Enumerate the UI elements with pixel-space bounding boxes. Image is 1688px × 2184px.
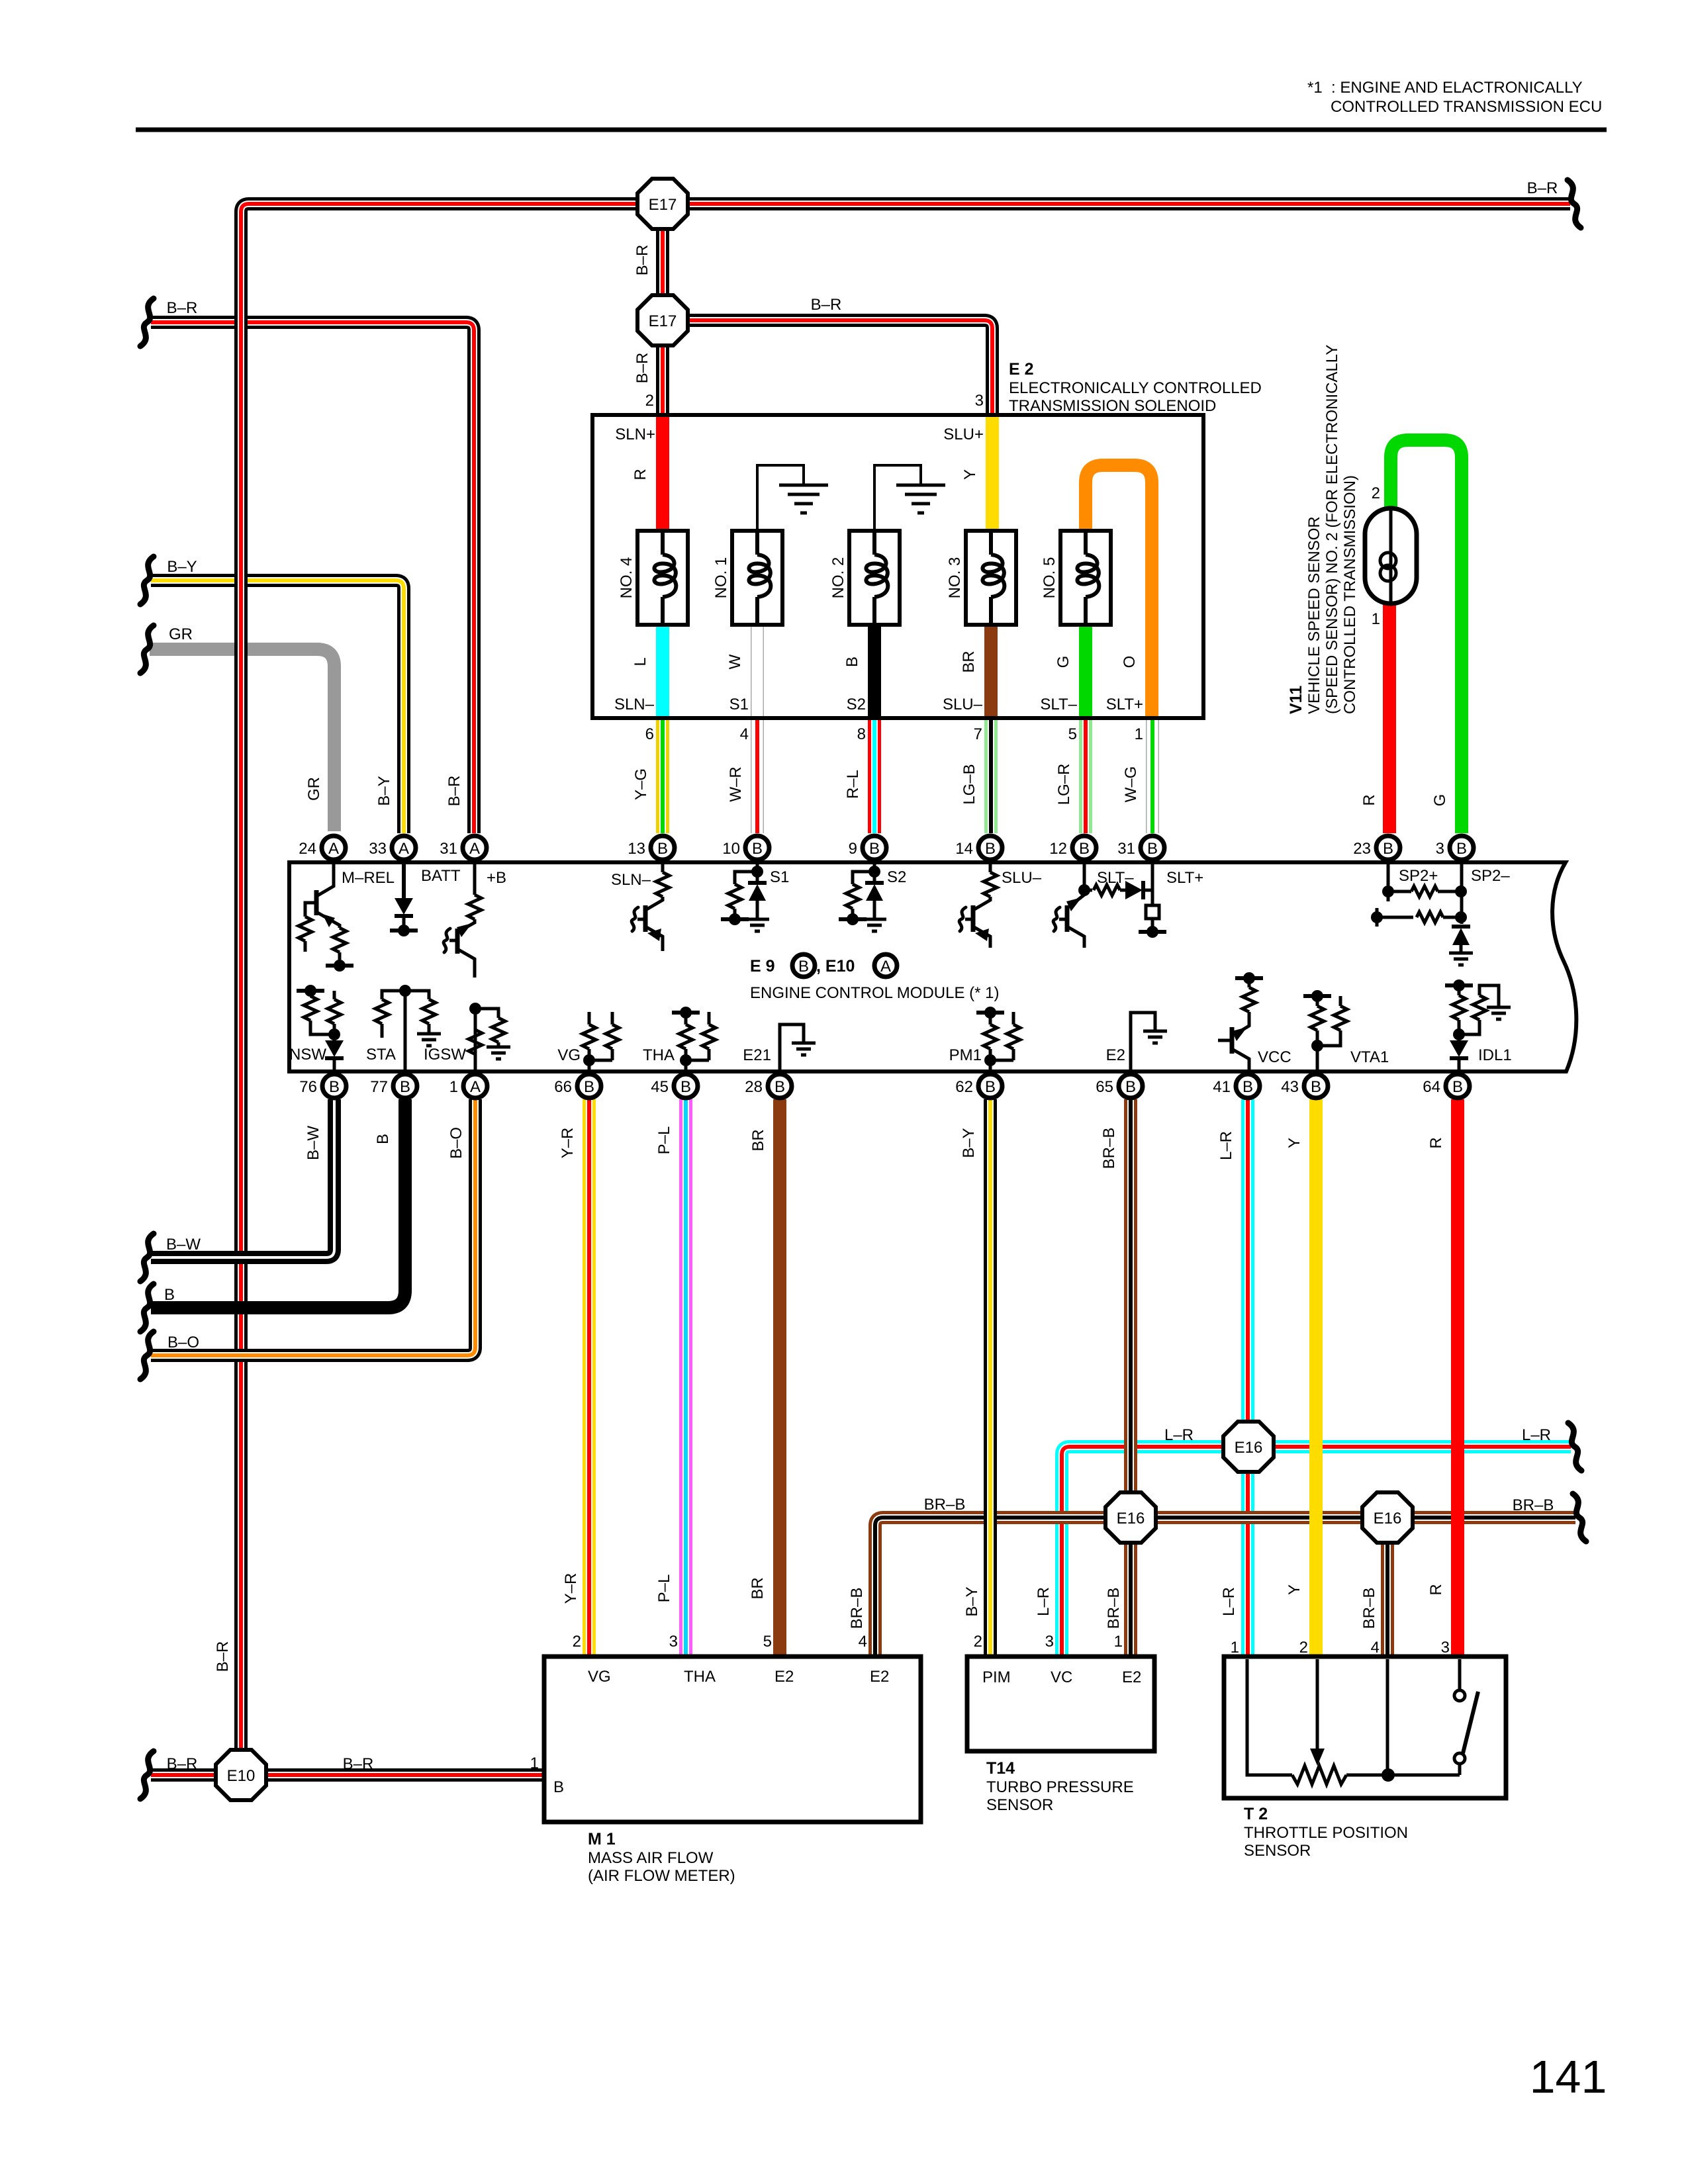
wire P-L wire 45B to M1 THA [679,1099,692,1655]
T2 potentiometer [1247,1659,1292,1775]
svg-text:S1: S1 [770,868,789,886]
svg-text:VG: VG [588,1668,611,1686]
svg-text:8: 8 [857,725,866,743]
break symbol B left [140,1284,154,1332]
ECM bottom pin 62 B [978,1074,1002,1098]
svg-text:W–G: W–G [1122,766,1140,803]
svg-text:10: 10 [722,840,740,858]
svg-text:B–R: B–R [633,245,651,276]
svg-text:S1: S1 [729,696,749,713]
svg-text:THA: THA [643,1046,675,1064]
break symbol BR-B right [1573,1494,1586,1541]
wire B-R from E17 to solenoid pin3 [663,320,992,417]
svg-text:B–Y: B–Y [375,776,393,805]
solenoid box E2 border [592,415,1203,718]
svg-text:B: B [869,840,880,858]
wire W-R wire pin4 to 10B [751,719,764,833]
svg-text:B: B [1243,1078,1253,1096]
svg-text:L: L [632,657,649,666]
svg-text:SLU–: SLU– [943,696,983,713]
svg-text:B: B [1311,1078,1321,1096]
svg-text:G: G [1055,656,1072,668]
svg-text:SP2–: SP2– [1471,867,1510,885]
svg-text:E2: E2 [870,1668,889,1686]
clamp diodes S2 [873,864,876,883]
ECM top pin 23 B [1376,836,1400,860]
svg-text:Y: Y [1286,1138,1303,1148]
svg-text:E17: E17 [649,312,677,330]
svg-text:B: B [752,840,763,858]
svg-text:IGSW: IGSW [424,1046,466,1064]
svg-text:BR–B: BR–B [1100,1128,1118,1169]
header rule [136,128,1607,132]
svg-text:B: B [400,1078,410,1096]
svg-text:33: 33 [369,840,387,858]
svg-text:E2: E2 [774,1668,794,1686]
svg-text:L–R: L–R [1035,1587,1053,1616]
connector E17 octagon [637,295,688,345]
wire BR wire 28B to M1 E2 [773,1099,786,1655]
svg-text:W: W [726,654,744,669]
svg-text:Y: Y [961,469,979,480]
break symbol B-O left [140,1332,154,1379]
ECM bottom pin 43 B [1304,1074,1328,1098]
wire Y-R wire 66B to M1 VG [583,1099,596,1655]
ECM top pin 9 B [863,836,886,860]
svg-text:31: 31 [1117,840,1135,858]
svg-text:L–R: L–R [1220,1587,1238,1616]
wire R wire V11 pin1 to 23B [1383,602,1396,833]
ECM box fill [289,862,1576,1071]
svg-text:9: 9 [849,840,857,858]
svg-text:A: A [469,840,480,858]
ECM bottom pin 65 B [1119,1074,1143,1098]
svg-text:B: B [657,840,668,858]
solenoid box fill [592,415,1203,718]
svg-text:E16: E16 [1117,1510,1145,1527]
wire O wire SLT+ inside box [1086,465,1152,717]
ECM bottom pin 66 B [577,1074,601,1098]
svg-text:B–R: B–R [214,1641,232,1672]
svg-text:BR: BR [749,1129,767,1151]
wire B-O from pin1A [151,1099,475,1355]
svg-text:TURBO PRESSURE: TURBO PRESSURE [986,1778,1134,1796]
svg-text:BR–B: BR–B [848,1588,866,1629]
break symbol B-W left [140,1234,154,1281]
svg-text:E16: E16 [1374,1510,1402,1527]
svg-text:(SPEED SENSOR) NO. 2 (FOR ELEC: (SPEED SENSOR) NO. 2 (FOR ELECTRONICALLY [1323,345,1341,714]
svg-text:2: 2 [645,392,654,410]
svg-text:SLT–: SLT– [1097,869,1134,887]
E21 ground [780,1024,804,1069]
svg-text:B: B [1383,840,1393,858]
wire L wire SLN- inside box [656,622,669,717]
wire G wire SLT- inside box [1079,622,1092,717]
svg-text:14: 14 [955,840,973,858]
break symbol B-Y left [140,557,154,604]
svg-text:4: 4 [740,725,749,743]
wire BR-B wire 65B to T14 E2 [1124,1099,1137,1655]
wire W-G wire pin1 to 31B [1146,719,1159,833]
svg-text:STA: STA [366,1046,396,1064]
wire L-R wire 41B to T2 pin1 [1241,1099,1254,1655]
transistor M-REL [318,864,334,895]
break symbol GR left [140,625,154,673]
wire GR to pin24A [150,649,334,831]
svg-text:BR–B: BR–B [1105,1588,1123,1629]
svg-text:Y–R: Y–R [562,1573,580,1604]
break symbol B-R right top [1568,180,1581,228]
svg-text:VEHICLE SPEED SENSOR: VEHICLE SPEED SENSOR [1305,516,1323,714]
svg-text:Y–R: Y–R [559,1128,577,1159]
PM1 resistors [989,1060,992,1069]
svg-text:B: B [985,1078,996,1096]
transistor +B [473,864,477,895]
svg-text:W–R: W–R [727,766,745,801]
svg-text:BR–B: BR–B [1360,1588,1378,1629]
svg-text:3: 3 [975,392,984,410]
ECM box border [289,862,1576,1071]
svg-text:VTA1: VTA1 [1350,1048,1389,1066]
svg-text:1: 1 [1114,1633,1123,1651]
svg-text:B: B [1125,1078,1136,1096]
svg-text:B–Y: B–Y [960,1128,978,1158]
clamp diodes S1 [756,864,759,883]
svg-text:2: 2 [1372,484,1380,502]
ground for coil NO.2 [874,465,921,531]
svg-text:SENSOR: SENSOR [986,1796,1053,1814]
wire LG-B wire pin7 to 14B [984,719,998,833]
svg-text:B: B [584,1078,594,1096]
wire B wire S2 inside box [868,622,881,717]
svg-text:1: 1 [449,1078,458,1096]
svg-text:SENSOR: SENSOR [1244,1842,1311,1860]
svg-text:5: 5 [763,1633,772,1651]
wire Y wire SLU+ inside box [986,417,999,533]
svg-text:LG–B: LG–B [961,764,978,804]
svg-text:PM1: PM1 [949,1046,982,1064]
svg-text:45: 45 [651,1078,669,1096]
svg-text:12: 12 [1049,840,1067,858]
svg-text:R–L: R–L [844,770,862,799]
T14 box [967,1657,1154,1751]
svg-text:65: 65 [1096,1078,1113,1096]
svg-text:T14: T14 [986,1759,1015,1778]
svg-text:ELECTRONICALLY CONTROLLED: ELECTRONICALLY CONTROLLED [1009,379,1262,397]
svg-text:R: R [1360,794,1378,805]
wire Y-G wire pin6 to 13B [656,719,669,833]
svg-text:B–R: B–R [167,299,198,317]
ECM top pin 31 A [463,836,487,860]
svg-text:SLN+: SLN+ [615,426,655,443]
svg-text:R: R [1427,1137,1445,1148]
svg-text:NO. 1: NO. 1 [712,557,730,599]
connector E16 octagon [1105,1492,1156,1543]
svg-text:VG: VG [557,1046,581,1064]
svg-text:2: 2 [573,1633,581,1651]
svg-text:BATT: BATT [421,867,461,885]
svg-text:B: B [774,1078,785,1096]
SLT+ square and node [1151,864,1154,905]
ECM top pin 12 B [1072,836,1096,860]
svg-text:B: B [1452,1078,1463,1096]
solenoid coil NO. 2 [849,531,900,625]
svg-text:IDL1: IDL1 [1478,1046,1512,1064]
svg-text:B: B [374,1134,392,1144]
svg-text:64: 64 [1423,1078,1440,1096]
solenoid coil NO. 5 [1060,531,1111,625]
svg-text:P–L: P–L [655,1126,673,1155]
svg-text:NO. 4: NO. 4 [618,557,635,599]
diode BATT [402,864,406,898]
svg-text:O: O [1121,656,1139,668]
svg-text:B–Y: B–Y [167,558,197,576]
transistor SLN- [661,864,665,872]
svg-text:SP2+: SP2+ [1399,867,1438,885]
svg-text:L–R: L–R [1217,1131,1235,1160]
svg-text:E 9: E 9 [750,957,775,976]
svg-text:76: 76 [299,1078,317,1096]
svg-text:PIM: PIM [982,1668,1011,1686]
svg-text:28: 28 [745,1078,763,1096]
wire Y wire 43B to T2 pin2 [1309,1099,1323,1655]
wire B-W from pin76 [151,1099,334,1257]
wire R-L wire pin8 to 9B [868,719,881,833]
svg-text:141: 141 [1530,2051,1607,2103]
T2 junction dot pin4 [1386,1659,1389,1775]
svg-text:SLT+: SLT+ [1166,869,1203,887]
svg-text:R: R [632,469,649,480]
wire R wire 64B to T2 pin3 [1451,1099,1464,1655]
svg-text:BR: BR [749,1577,767,1599]
svg-text:E21: E21 [743,1046,771,1064]
svg-text:+B: +B [487,869,506,887]
svg-text:23: 23 [1353,840,1371,858]
svg-text:3: 3 [669,1633,678,1651]
svg-text:2: 2 [974,1633,982,1651]
wire B from pin77 [151,1099,405,1308]
svg-text:41: 41 [1213,1078,1231,1096]
ground for coil NO.1 [757,465,804,531]
svg-text:A: A [328,840,339,858]
svg-text:2: 2 [1299,1639,1308,1657]
svg-text:Y: Y [1286,1584,1303,1595]
svg-text:B: B [680,1078,691,1096]
svg-text:VCC: VCC [1258,1048,1291,1066]
T2 box [1224,1657,1506,1798]
svg-text:(AIR FLOW METER): (AIR FLOW METER) [588,1867,735,1885]
svg-text:T 2: T 2 [1244,1805,1268,1823]
wire W wire S1 inside box [751,622,764,717]
ECM top pin 31 B [1141,836,1164,860]
svg-text:6: 6 [645,725,654,743]
svg-text:E2: E2 [1122,1668,1141,1686]
svg-text:B–R: B–R [343,1755,374,1773]
svg-text:G: G [1431,794,1449,807]
svg-text:43: 43 [1281,1078,1299,1096]
ECM top pin 13 B [651,836,675,860]
V11 vehicle speed sensor body [1365,508,1417,604]
solenoid coil NO. 4 [637,531,688,625]
transistor SLU- [989,864,992,872]
ECM bottom pin 45 B [674,1074,698,1098]
ECM bottom pin 76 B [322,1074,346,1098]
svg-text:E16: E16 [1235,1439,1263,1457]
svg-text:BR–B: BR–B [1513,1496,1554,1514]
svg-text:62: 62 [955,1078,973,1096]
svg-text:L–R: L–R [1164,1426,1194,1444]
svg-text:GR: GR [305,777,323,801]
ECM top pin 3 B [1450,836,1474,860]
break symbol B-R left [140,298,154,346]
solenoid coil NO. 1 [732,531,782,625]
E2 ground [1131,1013,1155,1069]
svg-text:B–R: B–R [633,353,651,384]
svg-text:CONTROLLED TRANSMISSION): CONTROLLED TRANSMISSION) [1341,475,1359,714]
svg-text:3: 3 [1045,1633,1054,1651]
ECM bottom pin 64 B [1446,1074,1470,1098]
svg-text:SLT–: SLT– [1040,696,1077,713]
svg-text:B: B [798,958,809,976]
ECM bottom pin 77 B [393,1074,417,1098]
svg-text:GR: GR [169,625,193,643]
ECM top pin 14 B [978,836,1002,860]
wire BR-B branch to M1 E2 pin4 [875,1518,1575,1655]
ECM bottom pin 1 A [463,1074,487,1098]
svg-text:SLT+: SLT+ [1106,696,1143,713]
svg-text:P–L: P–L [655,1574,673,1603]
svg-text:ENGINE CONTROL MODULE (* 1): ENGINE CONTROL MODULE (* 1) [750,984,1000,1002]
svg-text:77: 77 [370,1078,388,1096]
svg-text:B: B [1147,840,1158,858]
svg-text:B–R: B–R [445,776,463,807]
svg-text:E10: E10 [227,1767,256,1785]
svg-text:7: 7 [974,725,982,743]
SP2 resistors and diode [1387,864,1390,901]
solenoid coil NO. 3 [966,531,1016,625]
svg-text:E 2: E 2 [1009,360,1034,379]
IGSW resistors [474,1009,477,1069]
svg-text:B–O: B–O [167,1334,199,1351]
svg-text:THA: THA [684,1668,716,1686]
VG resistors [588,1060,591,1069]
transistor and diode SLT- [1083,864,1086,895]
svg-text:E2: E2 [1106,1046,1125,1064]
wire B-Y to pin33A [151,580,404,833]
svg-text:Y–G: Y–G [632,768,650,800]
svg-text:VC: VC [1051,1668,1072,1686]
svg-text:S2: S2 [887,868,906,886]
svg-text:3: 3 [1436,840,1444,858]
svg-text:L–R: L–R [1522,1426,1551,1444]
STA resistors [404,991,407,1069]
svg-text:, E10: , E10 [816,957,855,976]
THA resistors [684,1060,688,1069]
NSW resistors and diode [297,985,324,997]
wire BR wire SLU- inside box [984,622,998,717]
IDL1 resistors and diode [1445,979,1473,991]
svg-text:B–O: B–O [447,1127,465,1159]
svg-text:M 1: M 1 [588,1830,616,1848]
break symbol L-R right [1568,1423,1581,1471]
wire L-R branch to T14 VC [1062,1447,1571,1655]
break symbol B-R left bottom [140,1751,154,1799]
svg-text:24: 24 [299,840,316,858]
svg-text:66: 66 [554,1078,572,1096]
wire B-R to +B pin31A [151,322,474,833]
svg-text:1: 1 [1135,725,1143,743]
svg-text:SLN–: SLN– [614,696,655,713]
svg-text:TRANSMISSION SOLENOID: TRANSMISSION SOLENOID [1009,397,1216,415]
svg-text:A: A [880,958,891,976]
svg-text:NO. 3: NO. 3 [946,557,964,599]
VTA1 resistors [1303,990,1331,1002]
svg-text:A: A [399,840,409,858]
svg-text:31: 31 [440,840,457,858]
svg-text:B–W: B–W [305,1126,322,1160]
wire G wire V11 pin2 to 3B [1391,440,1462,833]
svg-text:B: B [985,840,996,858]
connector E10 octagon [216,1750,266,1800]
connector E16 octagon [1223,1422,1274,1472]
svg-text:E17: E17 [649,196,677,214]
wire B-R stub from break to E10 [151,1768,244,1782]
T2 idle switch [1458,1659,1462,1690]
wire B-R main: top run and long vertical to E10 and M1 [241,204,1570,1775]
transistor VCC [1235,972,1263,984]
svg-text:B–Y: B–Y [963,1586,981,1616]
svg-text:R: R [1427,1584,1445,1595]
connector E16 octagon [1362,1492,1413,1543]
svg-text:1: 1 [1231,1639,1239,1657]
svg-text:B: B [329,1078,340,1096]
svg-text:THROTTLE POSITION: THROTTLE POSITION [1244,1824,1408,1842]
wire LG-R wire pin5 to 12B [1079,719,1092,833]
svg-text:V11: V11 [1287,686,1305,714]
svg-text:13: 13 [628,840,645,858]
wire B-R between E17s down to solenoid pin2 [656,204,669,417]
svg-text:BR: BR [960,651,978,672]
svg-text:SLN–: SLN– [611,871,651,889]
connector E17 octagon [637,179,688,229]
ECM bottom pin 41 B [1236,1074,1260,1098]
svg-text:SLU–: SLU– [1002,869,1042,887]
svg-text:BR–B: BR–B [924,1496,966,1514]
wire BR-B drop to T2 pin4 [1381,1518,1394,1655]
svg-text:B: B [843,657,861,667]
svg-text:4: 4 [859,1633,867,1651]
svg-text:LG–R: LG–R [1055,764,1073,805]
svg-text:B: B [164,1286,175,1304]
svg-text:B–W: B–W [166,1236,201,1253]
svg-text:B–R: B–R [167,1755,198,1773]
ECM bottom pin 28 B [768,1074,792,1098]
svg-text:M–REL: M–REL [342,869,395,887]
svg-text:B–R: B–R [811,296,842,314]
svg-text:CONTROLLED TRANSMISSION ECU: CONTROLLED TRANSMISSION ECU [1331,98,1602,116]
svg-text:NO. 2: NO. 2 [829,557,847,599]
svg-text:*1 : ENGINE AND ELACTRONICALL: *1 : ENGINE AND ELACTRONICALLY [1307,79,1583,97]
svg-text:NSW: NSW [289,1046,326,1064]
svg-text:MASS AIR FLOW: MASS AIR FLOW [588,1849,714,1867]
svg-text:4: 4 [1371,1639,1380,1657]
ECM top pin 10 B [745,836,769,860]
svg-text:1: 1 [1372,610,1380,628]
svg-text:5: 5 [1068,725,1077,743]
ECM top pin 24 A [322,836,346,860]
svg-text:A: A [470,1078,481,1096]
svg-text:1: 1 [530,1754,539,1772]
